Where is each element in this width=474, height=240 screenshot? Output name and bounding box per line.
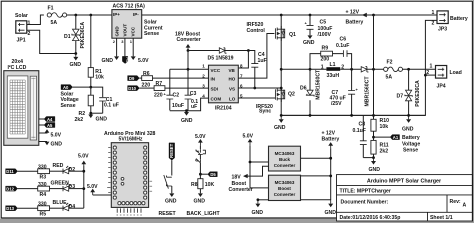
node tag D12 bbox=[6, 186, 18, 192]
diode D6 MBR1560CT freewheel bbox=[300, 69, 321, 115]
capacitor C1 bbox=[91, 87, 119, 113]
svg-text:D12: D12 bbox=[6, 187, 14, 192]
switch SW1 reset bbox=[164, 160, 172, 193]
IC U2 IR2104 bbox=[202, 63, 243, 111]
svg-text:Date:01/12/2016 6:40:35p: Date:01/12/2016 6:40:35p bbox=[340, 215, 401, 221]
resistor R11 2k2 bbox=[371, 137, 389, 158]
node dot gnd bus bbox=[185, 109, 188, 112]
connector JP4 bbox=[426, 64, 461, 90]
wire JP4 pin2 to ground column bbox=[425, 74, 435, 76]
wire JP1 pin2 down to ground row bbox=[27, 30, 77, 53]
svg-text:HO: HO bbox=[229, 77, 236, 82]
svg-text:D10: D10 bbox=[128, 86, 136, 91]
node dot D7 top bbox=[407, 68, 410, 71]
svg-text:Rev:: Rev: bbox=[450, 199, 461, 205]
svg-text:1uF: 1uF bbox=[258, 58, 267, 64]
node dot C7 top bbox=[350, 68, 353, 71]
svg-text:JP3: JP3 bbox=[438, 26, 447, 32]
ground symbol C2/C3/COM bbox=[181, 112, 193, 124]
power +12V battery MC bbox=[322, 131, 340, 149]
svg-text:BLUE: BLUE bbox=[53, 200, 68, 206]
node dot 18V bbox=[187, 49, 190, 52]
svg-text:Arduino MPPT Solar Charger: Arduino MPPT Solar Charger bbox=[367, 179, 442, 185]
fuse F2 bbox=[384, 59, 403, 80]
svg-text:C3: C3 bbox=[190, 91, 197, 97]
svg-text:Document Number:: Document Number: bbox=[341, 200, 389, 206]
wire boost left bottom to gnd bbox=[258, 199, 269, 201]
node dot A1 bbox=[372, 136, 375, 139]
svg-text:GND: GND bbox=[252, 210, 264, 216]
wire main ground rail bbox=[281, 114, 425, 116]
IC U1 ACS712 current sensor bbox=[112, 4, 145, 44]
wire ground bus C2 C3 COM bbox=[170, 98, 209, 111]
svg-text:5V/16MHz: 5V/16MHz bbox=[119, 137, 143, 143]
svg-text:GND: GND bbox=[274, 125, 286, 131]
svg-text:10K: 10K bbox=[205, 182, 215, 188]
node dot buck 5V pin bbox=[249, 161, 252, 164]
svg-text:R3: R3 bbox=[40, 175, 47, 181]
svg-text:TITLE: MPPTCharger: TITLE: MPPTCharger bbox=[340, 189, 391, 195]
capacitor C4 bbox=[251, 52, 266, 67]
svg-text:IP+: IP+ bbox=[113, 12, 120, 17]
TVS diode D1 bbox=[64, 15, 86, 53]
wire LO to Q2 gate bbox=[238, 97, 275, 99]
resistor R4 330 bbox=[38, 182, 50, 198]
svg-text:L1: L1 bbox=[330, 62, 336, 68]
node dot battery column gnd bbox=[372, 114, 375, 117]
svg-text:LO: LO bbox=[229, 97, 236, 102]
svg-text:A0: A0 bbox=[63, 85, 69, 90]
wire ACS712 VCC pin bbox=[132, 38, 134, 56]
svg-text:R4: R4 bbox=[40, 192, 47, 198]
svg-text:GREEN: GREEN bbox=[51, 181, 70, 187]
node tag A1 bbox=[374, 135, 400, 140]
svg-text:0.1uF: 0.1uF bbox=[353, 128, 366, 134]
diode D6b MBR1560CT series bbox=[361, 67, 370, 107]
svg-text:330: 330 bbox=[38, 182, 47, 188]
svg-text:Battery: Battery bbox=[346, 19, 364, 25]
node dot C3/18V column bbox=[187, 68, 190, 71]
ground symbol near D7 bbox=[402, 115, 414, 132]
node tag D13 bbox=[6, 206, 18, 212]
svg-text:5A: 5A bbox=[386, 75, 393, 81]
svg-text:+ 12V: + 12V bbox=[346, 10, 360, 16]
svg-text:2: 2 bbox=[28, 31, 31, 37]
wire D12 to R4 bbox=[18, 188, 38, 190]
svg-text:C5: C5 bbox=[320, 20, 327, 26]
svg-text:Boost: Boost bbox=[278, 186, 291, 191]
svg-text:F1: F1 bbox=[48, 5, 54, 11]
svg-text:VCC: VCC bbox=[211, 68, 221, 73]
power 5.0V backlight bbox=[195, 134, 206, 145]
svg-text:0.1 uF: 0.1 uF bbox=[104, 103, 119, 109]
svg-text:D7: D7 bbox=[397, 94, 404, 100]
node dot A0 bbox=[89, 86, 92, 89]
ground symbol MC right bbox=[325, 200, 337, 216]
svg-text:D1: D1 bbox=[64, 34, 71, 40]
svg-text:GND: GND bbox=[194, 199, 206, 205]
wire 5.0V to buck and boost bbox=[250, 146, 269, 188]
svg-text:SDI: SDI bbox=[211, 87, 219, 92]
node dot C4 bottom VS bbox=[253, 87, 256, 90]
svg-text:5.0V: 5.0V bbox=[243, 133, 254, 139]
wire JP3 pin2 down to ground rail bbox=[281, 20, 437, 115]
node tag A2 bbox=[122, 56, 130, 63]
svg-text:Converter: Converter bbox=[274, 163, 296, 168]
node tag D9 bbox=[128, 76, 140, 81]
ground symbol main rail left bbox=[274, 115, 286, 130]
svg-text:1: 1 bbox=[28, 21, 31, 27]
wire D9 to R6 bbox=[139, 77, 141, 79]
node dot D6 top bbox=[309, 68, 312, 71]
svg-text:D9: D9 bbox=[129, 76, 135, 81]
LED D2 red bbox=[50, 166, 84, 174]
resistor R3 330 bbox=[38, 164, 50, 180]
svg-text:5A: 5A bbox=[51, 20, 58, 26]
module U4 MC34063 buck bbox=[269, 146, 301, 171]
node dot D3 row bbox=[82, 187, 85, 190]
svg-text:GND: GND bbox=[181, 118, 193, 124]
svg-text:Load: Load bbox=[450, 70, 462, 76]
svg-text:Battery: Battery bbox=[450, 16, 468, 22]
svg-text:Sense: Sense bbox=[403, 148, 418, 154]
capacitor C7 470uF bbox=[330, 69, 359, 115]
capacitor C3 0.1uF bbox=[185, 69, 199, 110]
svg-text:BACK_LIGHT: BACK_LIGHT bbox=[187, 211, 221, 217]
svg-text:A4: A4 bbox=[47, 117, 53, 122]
svg-text:GND: GND bbox=[325, 210, 337, 216]
inductor L1 33uH bbox=[321, 62, 344, 79]
svg-text:Solar: Solar bbox=[15, 13, 28, 19]
svg-text:/25V: /25V bbox=[331, 101, 342, 107]
svg-text:GND: GND bbox=[114, 26, 119, 37]
title block bbox=[337, 175, 473, 221]
svg-text:GND: GND bbox=[303, 40, 315, 46]
svg-text:A: A bbox=[463, 203, 467, 209]
svg-text:10uF: 10uF bbox=[172, 103, 184, 109]
svg-text:5.0V: 5.0V bbox=[78, 154, 89, 160]
LED D3 green bbox=[50, 183, 84, 191]
svg-text:GND: GND bbox=[51, 142, 63, 148]
wire LCD SCL bbox=[39, 124, 44, 126]
power 5.0V buck output bbox=[243, 133, 254, 145]
svg-text:Sense: Sense bbox=[61, 103, 76, 109]
ground symbol backlight bbox=[194, 193, 206, 204]
svg-text:Q2: Q2 bbox=[288, 91, 295, 97]
wire ACS712 GND pin bbox=[116, 38, 118, 56]
node dot switch node L1 row bbox=[280, 68, 283, 71]
node dot VB bbox=[247, 49, 250, 52]
svg-text:10k: 10k bbox=[380, 124, 389, 130]
transistor Q2 IRF520 bbox=[275, 87, 295, 115]
wire R6 to pin2 bbox=[153, 77, 209, 79]
wire C1 bottom to R2 bottom bbox=[91, 112, 103, 114]
wire D13 to R5 bbox=[18, 207, 38, 209]
capacitor C2 10uF bbox=[164, 69, 185, 110]
svg-text:C8: C8 bbox=[359, 122, 366, 128]
svg-text:330: 330 bbox=[38, 164, 47, 170]
node dot D1 top bbox=[74, 14, 77, 17]
power 5.0V arduino bbox=[87, 184, 111, 195]
svg-text:D3: D3 bbox=[69, 184, 76, 190]
svg-text:uF: uF bbox=[191, 104, 197, 110]
svg-text:220: 220 bbox=[154, 92, 163, 98]
LCD 20x4 module bbox=[4, 59, 39, 145]
svg-text:Sync: Sync bbox=[259, 109, 271, 115]
TVS diode D7 bbox=[397, 69, 422, 115]
node dot buck 12V pin bbox=[329, 157, 332, 160]
svg-text:D13: D13 bbox=[6, 206, 14, 211]
power 5.0V at ACS712 VCC bbox=[131, 56, 149, 64]
svg-text:ACS 712 (5A): ACS 712 (5A) bbox=[113, 4, 146, 10]
connector JP1 bbox=[15, 13, 31, 44]
svg-text:GND: GND bbox=[70, 62, 82, 68]
svg-text:5.0V: 5.0V bbox=[138, 58, 149, 64]
svg-text:R7: R7 bbox=[156, 81, 163, 87]
svg-text:GND: GND bbox=[165, 199, 177, 205]
svg-text:GND: GND bbox=[102, 58, 114, 64]
svg-text:A2: A2 bbox=[126, 57, 131, 63]
ground symbol R2/C1 bbox=[88, 113, 107, 122]
node tag A5 bbox=[44, 123, 55, 129]
svg-text:2k2: 2k2 bbox=[380, 148, 389, 154]
svg-text:MBR1560CT: MBR1560CT bbox=[365, 76, 371, 107]
node dot Q2 source gnd bbox=[280, 114, 283, 117]
node dot R1 top bbox=[89, 14, 92, 17]
svg-text:C6: C6 bbox=[340, 37, 347, 43]
svg-text:5.0V: 5.0V bbox=[51, 133, 62, 139]
capacitor C5 bbox=[305, 15, 333, 38]
svg-text:Control: Control bbox=[247, 28, 266, 34]
LED D4 blue bbox=[50, 203, 84, 211]
node dot Q1 drain bbox=[280, 14, 283, 17]
node dot VS switch node bbox=[280, 87, 283, 90]
wire VB node down to pin8 bbox=[238, 51, 248, 69]
svg-text:D11: D11 bbox=[6, 169, 14, 174]
power 18V boost output label bbox=[229, 166, 269, 193]
wire LED rail bbox=[83, 166, 85, 208]
module U5 MC34063 boost bbox=[269, 175, 301, 200]
svg-text:Voltage: Voltage bbox=[402, 141, 420, 147]
resistor R6 220 bbox=[142, 71, 153, 88]
node tag D10 bbox=[128, 86, 140, 91]
svg-text:GND: GND bbox=[96, 116, 108, 122]
svg-text:MC34063: MC34063 bbox=[275, 151, 295, 156]
svg-text:C2: C2 bbox=[173, 93, 180, 99]
svg-text:1: 1 bbox=[321, 65, 324, 71]
node tag RESET bbox=[169, 143, 175, 160]
wire VS to switch node bbox=[238, 87, 255, 89]
svg-text:JP4: JP4 bbox=[437, 84, 446, 90]
svg-text:/100V: /100V bbox=[318, 32, 332, 38]
ground symbol C5 bbox=[303, 35, 315, 46]
node dot R11 bottom bbox=[372, 156, 375, 159]
svg-text:RED: RED bbox=[53, 163, 64, 169]
svg-text:IR2104: IR2104 bbox=[215, 105, 232, 111]
ground symbol ACS712 bbox=[102, 56, 120, 63]
module U3 Arduino Pro Mini 328 bbox=[104, 131, 156, 215]
resistor R5 330 bbox=[38, 201, 50, 217]
resistor R7 220 bbox=[154, 81, 165, 98]
svg-text:R6: R6 bbox=[143, 71, 150, 77]
svg-text:D5 1N5819: D5 1N5819 bbox=[208, 56, 234, 62]
fuse F1 bbox=[47, 5, 66, 26]
svg-text:Buck: Buck bbox=[279, 157, 291, 162]
svg-text:GND: GND bbox=[402, 127, 414, 133]
svg-text:10k: 10k bbox=[95, 75, 104, 81]
wire L1 to C6/C7 node bbox=[340, 68, 361, 70]
node dot C5 top bbox=[309, 14, 312, 17]
snubber resistor R9 200 bbox=[310, 46, 333, 70]
svg-text:D5: D5 bbox=[210, 172, 216, 177]
node dot boost 12V pin bbox=[329, 175, 332, 178]
node dot D1 bottom bbox=[74, 52, 77, 55]
node tag A0 bbox=[61, 85, 91, 90]
svg-text:Battery: Battery bbox=[402, 135, 420, 141]
wire JP1 pin1 to fuse bbox=[27, 15, 44, 25]
wire switch node to L1 bbox=[281, 68, 326, 70]
node dot D7 gnd bbox=[407, 114, 410, 117]
svg-text:1: 1 bbox=[430, 64, 433, 70]
svg-text:R9: R9 bbox=[322, 46, 329, 52]
power 5.0V LCD bbox=[39, 129, 62, 138]
ground symbol MC boost left bbox=[252, 200, 264, 216]
diode D5 1N5819 bbox=[208, 48, 234, 62]
svg-text:GND: GND bbox=[369, 167, 381, 173]
wire VCC bus pin1 bbox=[170, 68, 209, 70]
snubber capacitor C6 bbox=[333, 37, 352, 70]
node dot D6 gnd bbox=[309, 114, 312, 117]
node dot boost gnd left bbox=[257, 198, 260, 201]
svg-text:RESET: RESET bbox=[169, 143, 174, 157]
svg-text:Battery: Battery bbox=[322, 136, 340, 142]
svg-text:COM: COM bbox=[211, 97, 222, 102]
svg-text:Converter: Converter bbox=[177, 37, 201, 43]
node dot R2 bottom bbox=[89, 112, 92, 115]
svg-text:Converter: Converter bbox=[229, 187, 253, 193]
svg-text:IP-: IP- bbox=[133, 12, 139, 17]
svg-text:VOUT: VOUT bbox=[122, 24, 127, 37]
node dot JP4 pin2 bbox=[424, 74, 427, 77]
svg-text:33uH: 33uH bbox=[327, 73, 340, 79]
svg-text:VB: VB bbox=[229, 68, 236, 73]
svg-text:D4: D4 bbox=[69, 204, 76, 210]
svg-text:18V: 18V bbox=[232, 174, 242, 180]
svg-text:P6KE36CA: P6KE36CA bbox=[80, 22, 86, 49]
svg-text:220: 220 bbox=[142, 82, 151, 88]
ground LCD bbox=[39, 142, 62, 148]
wire ACS712 VOUT pin bbox=[124, 38, 126, 56]
svg-text:2k2: 2k2 bbox=[75, 117, 84, 123]
svg-text:Converter: Converter bbox=[274, 192, 296, 197]
connector JP3 bbox=[432, 10, 468, 32]
node tag D5 bbox=[200, 172, 217, 178]
power 5.0V LED rail bbox=[78, 154, 89, 167]
node dot backlight gate bbox=[199, 173, 202, 176]
svg-text:RESET: RESET bbox=[159, 211, 177, 217]
node dot +12V battery bbox=[372, 14, 375, 17]
wire C4 branch bbox=[248, 51, 254, 89]
svg-text:330: 330 bbox=[38, 201, 47, 207]
wire 18V to VB node bbox=[188, 50, 248, 52]
svg-text:F2: F2 bbox=[387, 59, 393, 65]
wire R1 from rail bbox=[90, 15, 92, 68]
wire top rail F1 to ACS712 bbox=[67, 14, 112, 16]
transistor Q1 IRF520 bbox=[275, 15, 296, 90]
svg-text:D2: D2 bbox=[69, 167, 76, 173]
power 18V boost node bbox=[175, 31, 201, 51]
wire 18V column to VCC bus bbox=[187, 51, 189, 70]
wire D11 to R3 bbox=[18, 170, 38, 172]
resistor R8 10K bbox=[191, 174, 215, 193]
svg-text:D6: D6 bbox=[300, 86, 307, 92]
svg-text:MBR1560CT: MBR1560CT bbox=[315, 69, 321, 100]
transistor Q3 backlight bbox=[196, 146, 206, 175]
ground symbol R11 bbox=[369, 158, 381, 174]
svg-text:Sense: Sense bbox=[144, 31, 159, 37]
ground symbol below D1 bbox=[70, 54, 82, 69]
svg-text:R5: R5 bbox=[40, 212, 47, 218]
wire battery column through rail bbox=[373, 69, 375, 119]
resistor R2 2k2 bbox=[75, 87, 94, 123]
svg-text:200: 200 bbox=[321, 56, 330, 62]
svg-text:P6KE36CA: P6KE36CA bbox=[415, 80, 421, 107]
resistor R1 10k bbox=[88, 68, 104, 88]
wire R7 to pin3 bbox=[165, 87, 209, 89]
wire LCD SDA bbox=[39, 118, 44, 120]
svg-text:A5: A5 bbox=[47, 123, 53, 128]
svg-text:Q1: Q1 bbox=[289, 32, 296, 38]
svg-text:1: 1 bbox=[432, 10, 435, 16]
svg-text:0.1uF: 0.1uF bbox=[336, 43, 349, 49]
svg-text:IN: IN bbox=[211, 77, 216, 82]
svg-text:Sheet 1/1: Sheet 1/1 bbox=[430, 215, 453, 221]
wire diode to battery node bbox=[367, 68, 384, 70]
wire rail ACS712 IP- to Q1/C5/+12V/JP3 bbox=[142, 14, 437, 16]
wire D10 to R7 bbox=[139, 87, 154, 89]
node tag D11 bbox=[6, 169, 18, 175]
svg-text:VS: VS bbox=[229, 87, 235, 92]
ground symbol reset bbox=[165, 193, 177, 204]
svg-text:2: 2 bbox=[432, 21, 435, 27]
power label +12V battery top bbox=[346, 10, 367, 26]
svg-text:JP1: JP1 bbox=[17, 38, 26, 44]
resistor R10 10k bbox=[371, 118, 389, 137]
svg-text:I²C LCD: I²C LCD bbox=[8, 65, 27, 71]
node dot battery column top bbox=[372, 68, 375, 71]
svg-text:VCC: VCC bbox=[131, 26, 136, 36]
node dot D2 row bbox=[82, 170, 85, 173]
wire C8 bottom to R11 bottom bbox=[363, 157, 373, 159]
wire HO to Q1 gate bbox=[238, 34, 274, 79]
svg-text:MC34063: MC34063 bbox=[275, 180, 295, 185]
wire F2 to JP4 bbox=[403, 68, 436, 70]
svg-text:A1: A1 bbox=[393, 135, 399, 140]
capacitor C8 0.1uF bbox=[353, 115, 367, 157]
wire +12V column bbox=[373, 15, 375, 69]
svg-text:R8: R8 bbox=[191, 182, 198, 188]
wire +12V column MC bbox=[301, 148, 331, 200]
node dot C7 gnd bbox=[350, 114, 353, 117]
node tag A4 bbox=[44, 117, 55, 123]
